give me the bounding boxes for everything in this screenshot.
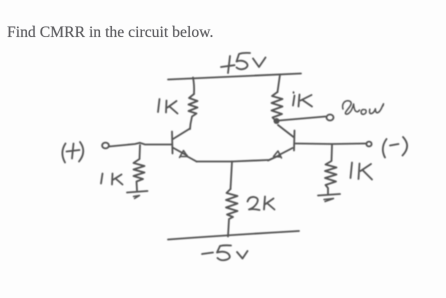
resistor RE 2K (tail) [226,189,238,237]
+5V rail [168,74,301,80]
label 2K [248,197,275,211]
vout terminal [327,115,334,121]
label -5V [202,245,248,260]
ground (left) [127,191,148,193]
(-) terminal [366,142,371,147]
wire to tail resistor [231,162,233,190]
node (collector of Q2) [274,118,280,124]
wire rail to R2 [278,75,281,93]
label 1K (R2) [293,92,312,106]
input (+) terminal [102,143,109,149]
label 1K (RB1) [101,174,123,185]
transistor Q2 (right) [268,125,295,161]
base resistor RB1 1K (left) [134,145,145,191]
label (-) [383,137,407,158]
base wire Q2 to (-) terminal [296,143,366,146]
resistor R2 1K (right collector) [272,92,283,121]
-5V rail [168,231,299,240]
base resistor RB2 1K (right) [325,145,337,194]
wire rail to R1 [193,78,194,95]
wire node to vout terminal [279,117,326,121]
label +5V [221,53,266,73]
label vout [343,101,384,115]
label 1K (RB2) [351,163,373,180]
wire (+) to base [109,143,172,147]
resistor R1 1K (left collector) [189,94,198,129]
label (+) [62,142,83,163]
ground (right) [318,194,340,196]
transistor Q1 (left) [172,129,197,162]
label 1K (R1) [158,99,178,114]
emitter rail [197,160,269,162]
